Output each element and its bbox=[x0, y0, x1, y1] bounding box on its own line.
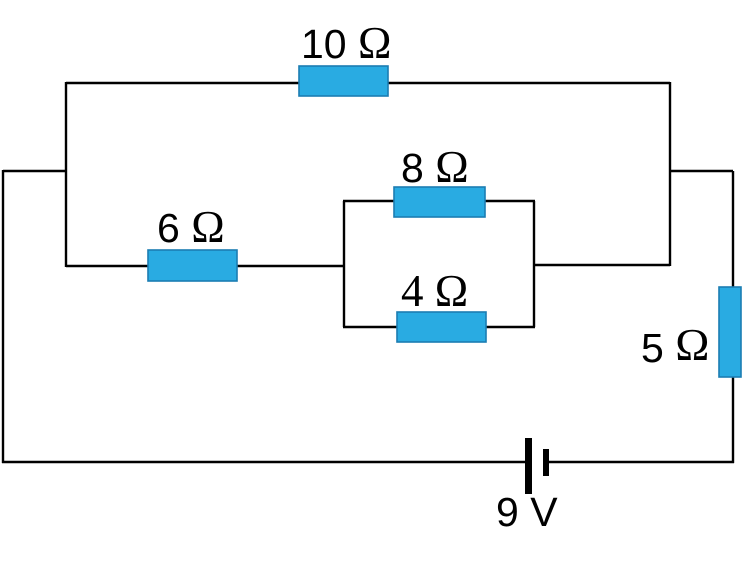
resistor 4 ohm bbox=[397, 312, 486, 342]
svg-text:6 Ω: 6 Ω bbox=[157, 202, 225, 252]
wire bottom-left (to battery) bbox=[2, 461, 525, 463]
svg-text:8 Ω: 8 Ω bbox=[401, 142, 469, 192]
wire parallel-box right vertical bbox=[533, 201, 535, 327]
svg-text:4 Ω: 4 Ω bbox=[401, 266, 468, 316]
resistor 5 ohm bbox=[719, 287, 741, 377]
wire inner-right vertical bbox=[669, 82, 671, 266]
wire outer-left vertical bbox=[2, 170, 4, 463]
svg-text:10 Ω: 10 Ω bbox=[301, 18, 391, 68]
battery 9V short plate bbox=[543, 449, 549, 476]
wire parallel-box bottom (4-ohm branch) bbox=[343, 326, 535, 328]
resistor 6 ohm bbox=[148, 250, 237, 281]
svg-text:9 V: 9 V bbox=[496, 489, 558, 535]
wire parallel-box to inner-right bbox=[534, 264, 670, 266]
wire right stub bbox=[670, 170, 733, 172]
svg-text:5 Ω: 5 Ω bbox=[641, 319, 709, 371]
battery 9V long plate bbox=[525, 438, 532, 494]
wire top (node A to node B) bbox=[66, 82, 670, 84]
wire parallel-box top (8-ohm branch) bbox=[343, 200, 535, 202]
wire bottom-right (battery to outer-right) bbox=[549, 461, 734, 463]
wire 6-ohm branch bbox=[66, 265, 344, 267]
resistor 10 ohm bbox=[299, 66, 388, 96]
wire outer-right vertical bbox=[732, 171, 734, 463]
wire inner-left vertical bbox=[65, 82, 67, 267]
resistor 8 ohm bbox=[394, 187, 485, 217]
wire parallel-box left vertical bbox=[343, 201, 345, 327]
wire left stub bbox=[3, 170, 66, 172]
